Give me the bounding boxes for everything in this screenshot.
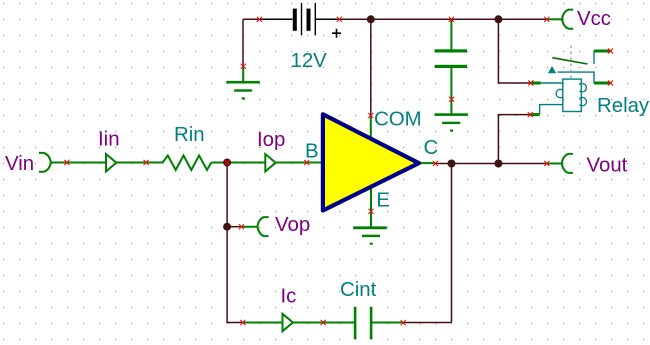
svg-text:COM: COM bbox=[374, 108, 422, 130]
battery plus sign bbox=[332, 29, 341, 38]
svg-text:Iop: Iop bbox=[257, 129, 285, 151]
wire Cint to riser bbox=[371, 322, 403, 324]
x ground pin at battery bbox=[241, 64, 246, 69]
svg-text:Vcc: Vcc bbox=[577, 8, 611, 30]
x battery left pin bbox=[257, 17, 262, 22]
terminal Vcc pin wire bbox=[547, 18, 563, 20]
pin-end markers (red x) bbox=[64, 17, 613, 326]
svg-text:Iin: Iin bbox=[98, 128, 120, 150]
x relay coil pin left bottom bbox=[528, 112, 533, 117]
relay coil loop left middle bbox=[556, 89, 563, 97]
wire bottom from Cint to riser bbox=[403, 322, 451, 324]
wire output rail C to Vout terminal bbox=[435, 163, 546, 165]
svg-text:Ic: Ic bbox=[281, 286, 297, 308]
terminal Vin bbox=[39, 153, 51, 172]
relay coil bottom pin link bbox=[540, 105, 563, 115]
relay coil stub left top bbox=[531, 82, 541, 85]
wire node B drop to Vop terminal bbox=[227, 226, 241, 228]
x transistor COM pin bbox=[368, 113, 373, 118]
wire bottom feedback to Ic arrow bbox=[243, 322, 283, 324]
terminal Vout pin wire bbox=[547, 163, 562, 165]
relay coil stub left bottom bbox=[530, 113, 539, 116]
capacitor C top pin stub bbox=[450, 19, 452, 49]
x relay coil pin left top bbox=[528, 80, 533, 85]
wire Cint right riser bbox=[451, 164, 453, 323]
relay actuator dashed link bbox=[570, 46, 572, 79]
wire B node drop to feedback bottom bbox=[227, 163, 243, 323]
relay coil top pin link bbox=[541, 82, 563, 84]
x relay contact pin top right bbox=[608, 48, 613, 53]
junction node at relay drop on output rail bbox=[494, 160, 502, 168]
svg-text:B: B bbox=[305, 141, 319, 163]
junction node B at Rin bbox=[223, 159, 231, 167]
wire COM drop from top rail to transistor COM pin bbox=[370, 19, 372, 115]
wire Vin terminal to Iin arrow bbox=[51, 162, 107, 164]
x battery right pin bbox=[337, 17, 342, 22]
transistor Q1 body (yellow triangle) bbox=[323, 114, 419, 210]
terminal Vop pin stub bbox=[241, 226, 257, 228]
x Vop terminal pin bbox=[239, 224, 244, 229]
relay switch blade bbox=[552, 58, 587, 64]
capacitor Cint plates bbox=[354, 307, 357, 339]
svg-text:Cint: Cint bbox=[340, 279, 377, 301]
x Rin right pin at node B bbox=[225, 160, 230, 165]
ground under battery bbox=[226, 81, 259, 84]
relay coil loop right top bbox=[579, 84, 586, 92]
wire relay coil bottom pin down to output rail bbox=[498, 115, 530, 164]
svg-text:12V: 12V bbox=[291, 50, 328, 72]
terminal Vout bbox=[562, 154, 573, 173]
svg-text:Vout: Vout bbox=[587, 155, 628, 177]
svg-text:Relay: Relay bbox=[597, 95, 650, 117]
x Ic wire left pin bbox=[240, 320, 245, 325]
relay RL1 coil box bbox=[563, 79, 582, 111]
svg-text:C: C bbox=[424, 137, 439, 159]
relay coil loop right bottom bbox=[579, 97, 586, 105]
transistor COM pin stub bbox=[370, 116, 372, 140]
x Cint right pin bbox=[401, 320, 406, 325]
wire Rin to Iop arrow bbox=[211, 162, 265, 164]
junction on top rail at COM bbox=[367, 15, 375, 23]
battery 12V left pin bbox=[259, 18, 292, 20]
terminal Vop bbox=[257, 217, 268, 236]
x capacitor C bottom pin bbox=[449, 97, 454, 102]
transistor C pin stub bbox=[419, 162, 436, 164]
battery 12V right pin bbox=[315, 18, 339, 20]
ground stub below E bbox=[370, 211, 372, 226]
capacitor C bottom stub to ground bbox=[450, 68, 452, 114]
wire top rail left segment to battery bbox=[243, 18, 259, 20]
x Rin left pin bbox=[144, 160, 149, 165]
ground under capacitor C bbox=[435, 113, 468, 116]
x Vout terminal pin bbox=[544, 161, 549, 166]
x transistor C pin bbox=[433, 161, 438, 166]
wire top rail from battery to Vcc terminal bbox=[339, 18, 547, 20]
wire Iop arrow to transistor base B bbox=[276, 162, 322, 164]
relay contact stub top right bbox=[594, 50, 611, 53]
svg-text:Rin: Rin bbox=[174, 124, 205, 146]
relay pivot triangle bbox=[548, 66, 556, 73]
svg-text:Vop: Vop bbox=[275, 214, 310, 236]
junction node at Vop tap bbox=[223, 223, 231, 231]
x capacitor C top pin bbox=[449, 17, 454, 22]
svg-text:Vin: Vin bbox=[5, 153, 34, 175]
resistor Rin zigzag bbox=[163, 156, 212, 171]
current arrow Ic bbox=[283, 314, 293, 331]
ground under emitter E bbox=[353, 226, 387, 229]
wire relay drop from top rail to relay coil top pin bbox=[498, 19, 530, 83]
wire Iin arrow to Rin bbox=[116, 162, 162, 164]
current arrow Iop bbox=[265, 154, 275, 171]
x transistor E pin bbox=[368, 209, 373, 214]
x Cint left pin bbox=[321, 320, 326, 325]
battery 12V plates bbox=[293, 9, 297, 31]
wire Ic arrow to Cint bbox=[293, 322, 355, 324]
junction on top rail at relay bbox=[494, 15, 502, 23]
x Vin pin bbox=[64, 160, 69, 165]
relay pole line bbox=[558, 72, 595, 83]
relay pole stub middle right bbox=[594, 82, 611, 85]
relay contact drop bbox=[593, 51, 595, 64]
ground stub at battery minus bbox=[242, 67, 244, 82]
transistor E pin stub bbox=[370, 186, 372, 211]
terminal Vcc bbox=[562, 10, 573, 29]
x Vcc terminal pin bbox=[544, 17, 549, 22]
x relay pole pin middle right bbox=[608, 80, 613, 85]
x transistor B pin bbox=[304, 160, 309, 165]
svg-text:E: E bbox=[376, 190, 390, 212]
capacitor C plates bbox=[435, 49, 467, 52]
junction node C at Cint riser bbox=[448, 160, 456, 168]
wire drop from top rail to ground at battery minus bbox=[242, 19, 244, 66]
current arrow Iin bbox=[106, 154, 116, 171]
